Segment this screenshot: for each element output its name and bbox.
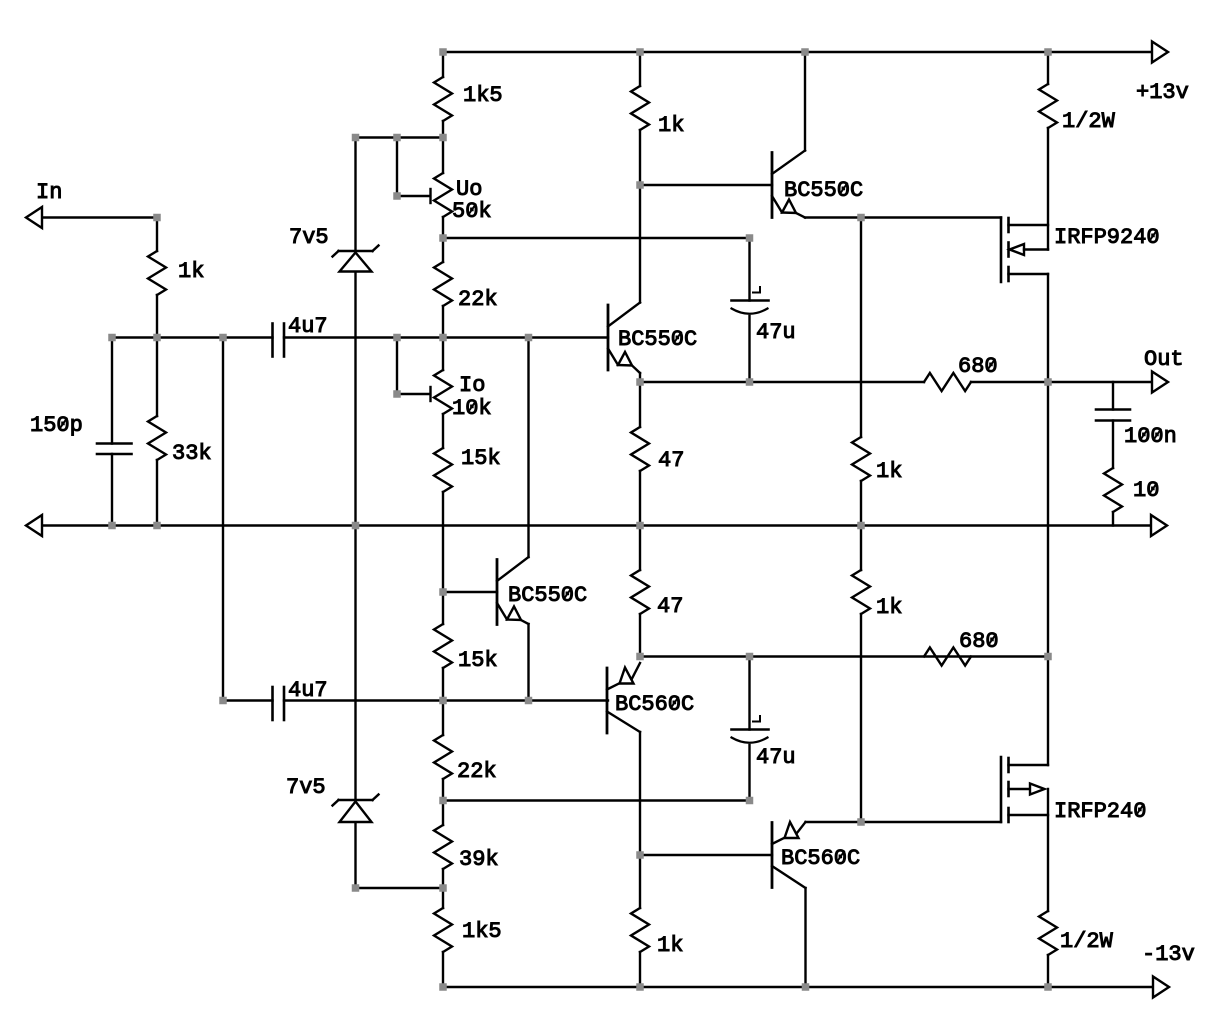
resistor 680 bottom xyxy=(924,629,999,666)
svg-text:100n: 100n xyxy=(1124,424,1177,449)
svg-text:-13v: -13v xyxy=(1142,942,1195,967)
resistor 1k5 bottom xyxy=(434,908,502,952)
svg-text:50k: 50k xyxy=(452,199,492,224)
resistor 1k input xyxy=(148,251,204,295)
resistor 680 top xyxy=(924,354,998,391)
port Out xyxy=(1144,347,1184,393)
port ground left xyxy=(26,515,42,536)
wire x528 link column xyxy=(527,338,529,701)
svg-text:4u7: 4u7 xyxy=(288,314,328,339)
wire lower feedback y656 xyxy=(640,655,1048,657)
zener diode 7v5 bottom xyxy=(286,775,379,822)
capacitor 4u7 upper xyxy=(273,314,328,357)
svg-text:47: 47 xyxy=(657,594,683,619)
wire top collector to rail xyxy=(804,52,806,151)
svg-text:39k: 39k xyxy=(459,847,499,872)
svg-text:47u: 47u xyxy=(756,745,796,770)
transistor BC550C top xyxy=(772,151,863,218)
svg-text:10: 10 xyxy=(1133,478,1159,503)
wire ground rail xyxy=(42,524,1151,526)
svg-text:33k: 33k xyxy=(172,441,212,466)
svg-text:47u: 47u xyxy=(756,320,796,345)
wire 47u column x749 xyxy=(748,238,750,801)
svg-text:1/2W: 1/2W xyxy=(1062,109,1116,134)
transistor BC550C middle xyxy=(608,303,697,374)
capacitor 100n xyxy=(1096,410,1177,450)
svg-text:4u7: 4u7 xyxy=(288,678,328,703)
svg-text:1k: 1k xyxy=(658,113,684,138)
capacitor 47u upper xyxy=(732,287,796,345)
svg-text:680: 680 xyxy=(959,629,999,654)
resistor 39k xyxy=(434,825,499,872)
wire x223 link column xyxy=(222,338,224,701)
port -13v xyxy=(1142,942,1195,998)
svg-text:BC550C: BC550C xyxy=(784,178,863,203)
svg-text:7v5: 7v5 xyxy=(289,225,329,250)
resistor 22k lower xyxy=(434,735,497,784)
wire base of lower-left BC550C xyxy=(443,591,497,593)
resistor 1/2W bottom xyxy=(1039,911,1114,955)
svg-text:Io: Io xyxy=(459,373,485,398)
port In xyxy=(26,180,62,228)
svg-text:In: In xyxy=(36,180,62,205)
mosfet IRFP240 xyxy=(1001,757,1146,824)
svg-text:1k: 1k xyxy=(876,595,902,620)
wire mid column x640 xyxy=(639,52,641,987)
svg-text:BC560C: BC560C xyxy=(615,692,694,717)
svg-text:150p: 150p xyxy=(30,413,83,438)
wire input node y337 right xyxy=(284,336,608,338)
svg-text:10k: 10k xyxy=(452,396,492,421)
mosfet IRFP9240 xyxy=(1001,218,1160,283)
svg-text:BC550C: BC550C xyxy=(508,583,587,608)
svg-text:1/2W: 1/2W xyxy=(1060,929,1114,954)
wire bottom zener to ladder y888 xyxy=(356,887,444,889)
svg-text:+13v: +13v xyxy=(1136,80,1189,105)
transistor BC550C lower-left xyxy=(497,557,587,625)
wire base of top BC550C xyxy=(640,184,772,186)
wire lower pot feedback y800 xyxy=(443,799,750,801)
wire 150p column xyxy=(111,338,113,526)
capacitor 4u7 lower xyxy=(273,678,328,720)
svg-text:1k5: 1k5 xyxy=(463,83,503,108)
wire ladder column x443 xyxy=(442,52,444,987)
resistor 1k5 top xyxy=(434,77,503,121)
resistor 1k mid-bottom xyxy=(631,908,683,958)
wire base of bottom BC560C xyxy=(640,854,772,856)
svg-text:1k: 1k xyxy=(657,933,683,958)
svg-text:22k: 22k xyxy=(458,287,498,312)
resistor 33k xyxy=(148,416,212,466)
wire output column x1048 xyxy=(1047,52,1049,987)
resistor 10 zobel xyxy=(1104,468,1159,512)
wire lower input y700 right xyxy=(284,699,608,701)
wire input node y337 left xyxy=(112,336,273,338)
svg-text:15k: 15k xyxy=(458,648,498,673)
capacitor 150p xyxy=(30,413,132,454)
svg-text:IRFP9240: IRFP9240 xyxy=(1054,225,1160,250)
svg-text:BC550C: BC550C xyxy=(618,327,697,352)
svg-text:BC560C: BC560C xyxy=(781,846,860,871)
resistor 47 upper xyxy=(631,427,684,473)
resistor 15k lower xyxy=(434,624,498,673)
svg-text:IRFP240: IRFP240 xyxy=(1054,799,1146,824)
port +13v xyxy=(1136,42,1189,106)
svg-text:680: 680 xyxy=(958,354,998,379)
resistor 15k upper xyxy=(434,446,501,492)
resistor 1k right-upper xyxy=(852,437,902,484)
wire zener top to ladder y138 xyxy=(356,136,444,138)
svg-text:Out: Out xyxy=(1144,347,1184,372)
wire lower input y700 left xyxy=(223,699,273,701)
wire output node y382 xyxy=(640,381,1150,383)
wire In port to 1k/33k node xyxy=(42,216,157,218)
wire BC560C emitter / IRFP240 gate xyxy=(806,821,1002,823)
resistor 47 lower xyxy=(631,570,683,619)
resistor 1/2W top xyxy=(1039,84,1116,134)
svg-text:15k: 15k xyxy=(461,446,501,471)
wire right column x861 xyxy=(860,218,862,823)
wire 1k/33k column xyxy=(156,218,158,526)
svg-text:47: 47 xyxy=(658,448,684,473)
resistor 1k right-lower xyxy=(852,570,902,620)
svg-text:7v5: 7v5 xyxy=(286,775,326,800)
svg-text:1k: 1k xyxy=(876,459,902,484)
resistor 22k upper xyxy=(434,262,498,312)
potentiometer Uo 50k xyxy=(434,173,492,224)
transistor BC560C middle xyxy=(607,663,694,733)
capacitor 47u lower xyxy=(732,716,796,770)
wire -13v bottom rail xyxy=(443,986,1153,988)
wire Io wiper feed xyxy=(397,338,431,402)
svg-text:1k5: 1k5 xyxy=(462,919,502,944)
wire pot-top feedback y238 xyxy=(443,237,750,239)
svg-text:22k: 22k xyxy=(457,759,497,784)
wire top emitter / IRFP9240 gate xyxy=(805,216,1001,218)
wire Uo wiper feed xyxy=(397,138,431,204)
zener diode 7v5 top xyxy=(289,225,379,272)
wire +13v top rail xyxy=(443,51,1150,53)
wire bottom collector to rail xyxy=(804,888,806,987)
wire zener column xyxy=(354,138,356,889)
wire zobel column xyxy=(1112,382,1114,526)
potentiometer Io 10k xyxy=(434,370,492,421)
port ground right xyxy=(1151,515,1167,536)
resistor 1k mid-top xyxy=(631,86,684,138)
svg-text:1k: 1k xyxy=(178,259,204,284)
transistor BC560C bottom xyxy=(772,822,860,888)
